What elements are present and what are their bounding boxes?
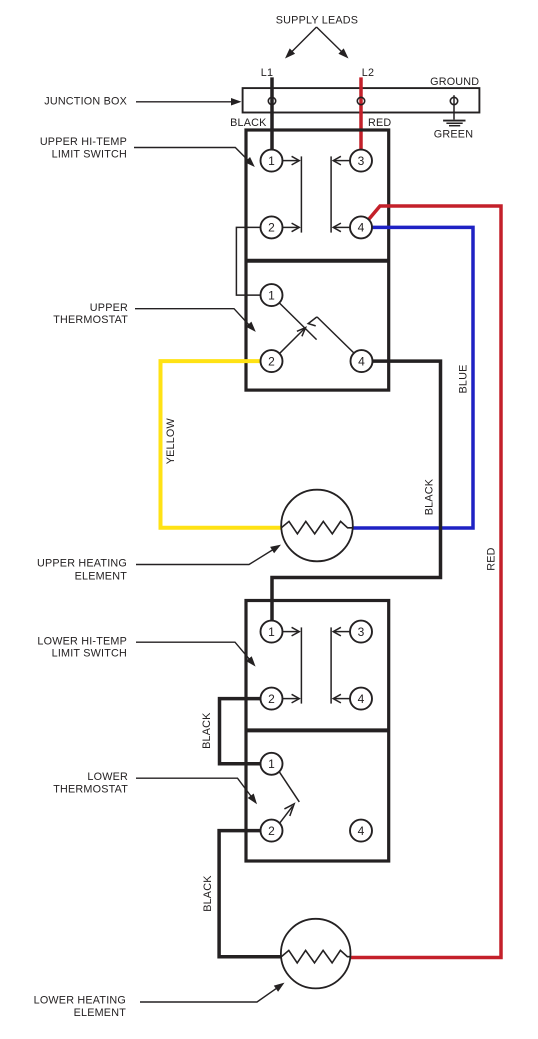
terminal 2 lower thermostat <box>261 820 283 842</box>
terminal 1 upper limit switch <box>261 150 283 172</box>
upper limit contact arrow from 2 <box>283 223 300 232</box>
svg-text:YELLOW: YELLOW <box>165 417 177 464</box>
terminal L2 in junction box <box>357 97 364 104</box>
upper heating element resistor zigzag <box>281 521 352 533</box>
svg-text:BLACK: BLACK <box>230 117 267 129</box>
svg-text:ELEMENT: ELEMENT <box>74 1007 127 1019</box>
svg-text:LOWER HI-TEMP: LOWER HI-TEMP <box>37 636 127 648</box>
svg-text:L1: L1 <box>261 67 273 79</box>
lower heating element resistor zigzag <box>281 950 350 963</box>
divider between upper limit switch and upper thermostat <box>246 259 389 263</box>
svg-text:4: 4 <box>358 221 365 235</box>
svg-text:RED: RED <box>486 547 498 570</box>
svg-text:4: 4 <box>358 692 365 706</box>
svg-text:GREEN: GREEN <box>434 129 473 141</box>
terminal L1 in junction box <box>268 97 275 104</box>
leader arrow to junction box <box>136 98 242 106</box>
terminal 1 upper thermostat <box>261 284 283 306</box>
upper limit switch contact bar left <box>300 156 302 232</box>
lower thermostat arm from 1 <box>279 772 299 802</box>
lower limit switch contact bar right <box>330 627 332 703</box>
upper limit switch contact bar right <box>330 156 332 232</box>
upper thermostat contact arrow from 4 <box>308 317 354 354</box>
terminal 4 lower limit switch <box>350 688 372 710</box>
terminal 3 lower limit switch <box>350 621 372 643</box>
svg-text:GROUND: GROUND <box>430 76 479 88</box>
wire L1 black supply <box>270 77 274 150</box>
terminal 4 upper thermostat <box>351 350 373 372</box>
upper heating element <box>281 490 353 562</box>
wire black: upper thermostat 4 to lower limit sw 1 <box>272 361 441 621</box>
svg-text:1: 1 <box>268 154 275 168</box>
leader arrow to upper limit switch <box>134 148 255 168</box>
terminal 4 upper limit switch <box>350 216 372 238</box>
upper limit contact arrow from 1 <box>283 156 300 165</box>
wire: upper limit sw 2 to upper thermostat 1 <box>236 227 260 295</box>
terminal 1 lower thermostat <box>261 753 283 775</box>
svg-text:LOWER HEATING: LOWER HEATING <box>34 995 126 1007</box>
svg-text:4: 4 <box>358 824 365 838</box>
divider between lower limit switch and lower thermostat <box>246 728 389 732</box>
ground terminal <box>450 97 457 104</box>
svg-text:UPPER HEATING: UPPER HEATING <box>37 558 127 570</box>
lower hi-temp limit switch / thermostat outer box <box>246 601 389 862</box>
svg-text:3: 3 <box>358 625 365 639</box>
svg-text:LOWER: LOWER <box>87 771 128 783</box>
svg-text:THERMOSTAT: THERMOSTAT <box>53 784 128 796</box>
terminal 2 upper thermostat <box>261 350 283 372</box>
svg-text:1: 1 <box>268 757 275 771</box>
upper limit contact arrow from 4 <box>333 223 350 232</box>
svg-text:RED: RED <box>368 117 391 129</box>
lower limit contact arrow from 1 <box>283 627 300 636</box>
wire red: upper limit sw 4 to lower heating element <box>351 206 502 958</box>
upper hi-temp limit switch / thermostat outer box <box>246 130 389 390</box>
svg-text:ELEMENT: ELEMENT <box>75 570 128 582</box>
upper limit contact arrow from 3 <box>333 156 350 165</box>
lower heating element <box>281 919 351 989</box>
leader arrow to upper thermostat <box>135 309 256 332</box>
svg-text:2: 2 <box>268 354 275 368</box>
leader arrow to lower heating element <box>140 983 285 1002</box>
svg-text:LIMIT SWITCH: LIMIT SWITCH <box>52 149 127 161</box>
svg-text:UPPER HI-TEMP: UPPER HI-TEMP <box>40 136 127 148</box>
terminal 2 lower limit switch <box>261 688 283 710</box>
terminal 2 upper limit switch <box>261 216 283 238</box>
svg-text:1: 1 <box>268 625 275 639</box>
svg-text:4: 4 <box>358 354 365 368</box>
junction box <box>243 88 480 112</box>
svg-text:2: 2 <box>268 824 275 838</box>
svg-text:SUPPLY LEADS: SUPPLY LEADS <box>276 15 358 27</box>
upper thermostat arm from 1 <box>279 303 316 340</box>
svg-text:BLACK: BLACK <box>201 712 213 749</box>
svg-text:2: 2 <box>268 692 275 706</box>
svg-text:UPPER: UPPER <box>90 302 128 314</box>
svg-text:BLACK: BLACK <box>424 478 436 515</box>
lower limit contact arrow from 3 <box>333 627 350 636</box>
wire yellow: upper thermostat 2 to upper heating element <box>161 361 282 528</box>
ground terminal stem <box>453 95 455 119</box>
upper thermostat contact arrow from 2 <box>280 328 306 354</box>
terminal 1 lower limit switch <box>261 621 283 643</box>
leader arrow to lower limit switch <box>136 642 256 666</box>
svg-text:BLUE: BLUE <box>458 364 470 393</box>
svg-text:2: 2 <box>268 221 275 235</box>
wire black: lower limit sw 2 to lower thermostat 1 <box>220 699 261 764</box>
terminal 4 lower thermostat <box>350 820 372 842</box>
lower thermostat contact arrow from 2 <box>280 804 294 823</box>
svg-text:THERMOSTAT: THERMOSTAT <box>53 314 128 326</box>
svg-text:L2: L2 <box>362 67 374 79</box>
svg-text:JUNCTION BOX: JUNCTION BOX <box>44 96 127 108</box>
lower limit contact arrow from 4 <box>333 694 350 703</box>
svg-text:3: 3 <box>358 154 365 168</box>
wire blue: upper limit sw 4 to upper heating element <box>352 227 473 528</box>
svg-text:BLACK: BLACK <box>202 875 214 912</box>
leader arrow to lower thermostat <box>136 778 257 804</box>
leader arrow to upper heating element <box>136 545 281 565</box>
terminal 3 upper limit switch <box>350 150 372 172</box>
leader arrow to L1 <box>285 27 317 59</box>
svg-text:1: 1 <box>268 288 275 302</box>
svg-text:LIMIT SWITCH: LIMIT SWITCH <box>52 648 127 660</box>
wire black: lower thermostat 2 to lower heating element <box>219 831 281 957</box>
ground symbol <box>443 121 465 126</box>
leader arrow to L2 <box>317 27 349 59</box>
lower limit switch contact bar left <box>300 627 302 703</box>
wire L2 red supply <box>359 77 363 150</box>
lower limit contact arrow from 2 <box>283 694 300 703</box>
